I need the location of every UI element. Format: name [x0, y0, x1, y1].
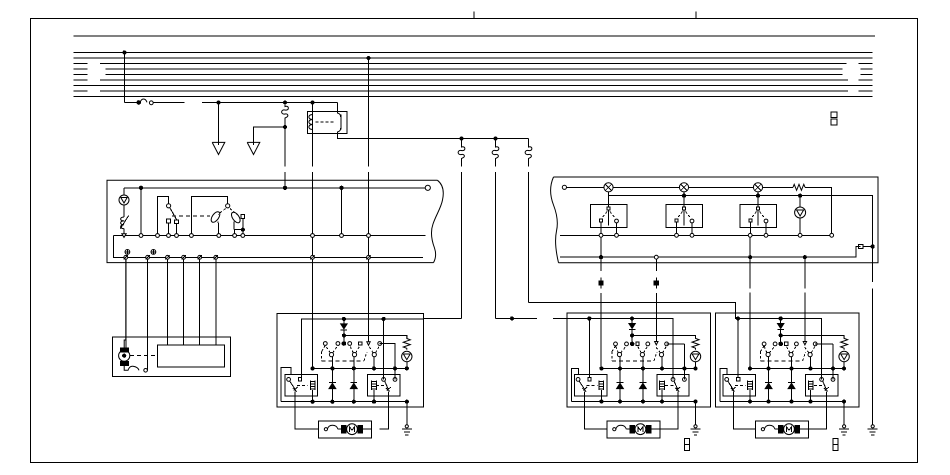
rear window cluster bottom bus junction x620	[767, 400, 770, 403]
left box inner line end circle	[425, 185, 430, 190]
bulb 3	[753, 183, 762, 192]
master switch pivot drops	[332, 357, 374, 369]
wire bus line 3 (broken)	[74, 63, 873, 65]
sub-box master left relay dashed link	[297, 384, 308, 386]
connector squares top right	[831, 112, 837, 125]
master wire coil left bottom	[312, 390, 314, 402]
master motor wire left	[295, 392, 318, 430]
node junction x141 on inner line	[139, 186, 142, 189]
wire oval1 to bus	[217, 222, 220, 236]
terminal circle x176.5 on left box bus	[175, 234, 179, 238]
wire x341 inner drop	[341, 188, 343, 234]
rear window cluster wire terminal link	[815, 343, 833, 345]
node junction x872	[871, 245, 874, 248]
symbol circled cross 1	[125, 250, 130, 255]
front window cluster ground	[691, 425, 701, 435]
wire left box to small box x215.8	[215, 259, 217, 345]
door switch 3	[740, 196, 776, 234]
rear window cluster mid bus junction x684.4	[831, 367, 834, 370]
master switch dashed enclosure	[322, 345, 367, 361]
master mid bus junction x406.8	[405, 367, 408, 370]
node junction on wire x285	[283, 125, 286, 128]
master bottom bus junction x406.8	[405, 400, 408, 403]
wire switch1 terminal b	[168, 223, 170, 236]
sub-box front window cluster left relay terminal square	[588, 378, 591, 381]
switch pivot drops	[620, 357, 662, 369]
terminal circle x191.4 on left box bus	[190, 234, 194, 238]
wire lamp stub	[123, 188, 125, 195]
front window cluster mid bus junction x601.4	[600, 367, 603, 370]
relay coil front window cluster left	[599, 381, 604, 391]
connector terminal x199.7 lower wire	[198, 255, 202, 259]
wire bus line 6 (broken)	[74, 79, 873, 81]
small box inner rect	[158, 345, 225, 367]
front window cluster box outline	[567, 313, 711, 407]
sub-box master right relay dashed link	[376, 384, 385, 386]
ground far right	[868, 425, 878, 435]
left box switch 2 frame	[191, 196, 227, 235]
diode rear window cluster D2	[788, 369, 795, 402]
rear window cluster ground	[839, 425, 849, 435]
front window cluster bottom bus junction x601.4	[600, 400, 603, 403]
rear window cluster mid bus junction x620	[767, 367, 770, 370]
wire bus line 9	[74, 96, 873, 98]
rear window cluster wire to sub-box right	[832, 344, 834, 380]
wire left box to master coil	[312, 259, 314, 368]
circuit breaker rear window cluster	[761, 425, 781, 431]
sub-box rear window cluster left relay terminal square	[736, 378, 739, 381]
right box line1 b	[613, 186, 680, 188]
connector terminal x368.5 lower wire	[366, 255, 370, 259]
front window cluster bottom bus junction x642.9	[641, 400, 644, 403]
sub-box front window cluster left relay terminal circle	[576, 378, 580, 382]
wire relay switch feed	[337, 103, 339, 112]
node lamp drop junction	[799, 194, 802, 197]
wire left box to small box x167.5	[167, 259, 169, 345]
terminal circle x800.1 right box bus	[798, 233, 802, 237]
diode master D2	[350, 369, 357, 402]
sub-box rear window cluster left relay	[723, 375, 755, 397]
master box outline	[277, 313, 424, 406]
interior lamp right box	[795, 196, 806, 234]
wire left box to small box x125.8	[125, 259, 127, 348]
motor M master	[342, 424, 372, 435]
wire horizontal feed	[125, 102, 138, 104]
node junction at x461	[460, 137, 463, 140]
terminal circle x676.5 right box bus	[675, 233, 679, 237]
connector mark x601	[599, 277, 603, 288]
node junction x750 lower	[749, 256, 752, 259]
sub-box rear window cluster right relay terminal circle b	[831, 378, 835, 382]
master wire to ground	[406, 402, 408, 425]
switch pivot drops	[769, 357, 811, 369]
left box switch 2 dashed levers	[218, 209, 237, 215]
front window cluster mid bus junction x620	[618, 367, 621, 370]
node bulb3 stub	[756, 192, 759, 197]
wire left box to small box x199.7	[199, 259, 201, 345]
sub-box rear window cluster right relay lever	[823, 381, 829, 392]
terminal circle x242.8 on left box bus	[241, 234, 245, 238]
terminal circle x656 lower	[654, 255, 658, 259]
sub-box front window cluster right relay terminal circle b	[683, 378, 687, 382]
sub-box master left relay	[285, 375, 317, 397]
illumination lamp	[839, 351, 849, 368]
circuit breaker front window cluster	[613, 425, 633, 431]
sub-box front window cluster left relay lever	[579, 381, 587, 392]
sub-box rear window cluster left relay dashed link	[735, 384, 746, 386]
node junction on bus line 2	[367, 56, 370, 59]
front window cluster mid bus junction x695.5	[694, 367, 697, 370]
rear window cluster bottom bus junction x695.5	[843, 400, 846, 403]
wire x804 to rear cluster	[804, 259, 806, 341]
wire resistor to bus	[123, 229, 125, 236]
node junction at x495	[494, 137, 497, 140]
front window cluster mid bus	[601, 368, 695, 370]
front window cluster sub-box outer outline	[572, 369, 579, 402]
master mid bus junction x332.4	[331, 367, 334, 370]
relay R1 coil	[309, 115, 313, 130]
frame tick mark 1	[473, 12, 475, 19]
wire oval2 junction link	[235, 229, 243, 231]
switch row terminals	[762, 342, 817, 346]
wire top line	[74, 35, 876, 37]
wire lamp to resistor	[123, 205, 125, 217]
illumination lamp	[690, 351, 700, 368]
bulb 1	[604, 183, 613, 192]
relay R1 box	[308, 112, 348, 134]
wire left box to small box x183.6	[183, 259, 185, 345]
front window cluster diode junction	[631, 334, 634, 337]
master bottom bus	[281, 401, 407, 403]
left box dashed link	[172, 215, 210, 217]
wire x656 to front cluster	[655, 259, 657, 341]
switch dashed enclosure	[612, 346, 657, 361]
rear window cluster sub-box outer outline	[720, 369, 727, 402]
rear window cluster bottom bus junction x662	[809, 400, 812, 403]
wire to master switch	[424, 317, 462, 319]
fusible link FL1	[137, 99, 153, 105]
master mid bus junction x374	[372, 367, 375, 370]
node junction x242	[241, 228, 244, 231]
front window cluster wire to sub-box right	[683, 344, 685, 380]
indicator oval 1	[209, 210, 221, 224]
front window cluster motor wire left	[585, 392, 607, 430]
left box bus line	[114, 235, 426, 237]
small box breaker	[124, 365, 139, 370]
rear window cluster bottom bus junction x642.9	[790, 400, 793, 403]
right box lower wire	[560, 247, 861, 258]
master feed junction diode	[342, 317, 345, 320]
terminal circle x141 on left box bus	[139, 234, 143, 238]
left box torn right edge	[432, 180, 444, 262]
rear window cluster mid bus	[750, 368, 844, 370]
right box torn left edge	[551, 177, 559, 263]
master feed wire	[302, 319, 424, 380]
wire vertical feed drop	[124, 52, 126, 102]
master wire terminal link	[380, 344, 395, 380]
master bottom bus junction x332.4	[331, 400, 334, 403]
wire relay output	[338, 134, 529, 139]
node bulb2 stub	[682, 192, 685, 197]
rear window cluster mid bus junction x662	[809, 367, 812, 370]
motor M front window cluster	[630, 424, 660, 435]
wire bus line 1	[74, 51, 873, 53]
small box outline	[112, 337, 230, 376]
front window cluster lamp feed wire	[632, 335, 695, 338]
wire bus line 8 (broken)	[74, 90, 873, 92]
right box line1 a	[567, 186, 604, 188]
front window cluster wire feed to sub-box	[588, 319, 590, 380]
connector terminal x147.6 lower wire	[145, 255, 149, 259]
master illumination lamp	[402, 351, 412, 368]
rear window cluster wire feed to sub-box	[737, 319, 739, 380]
master switch dashed levers	[325, 345, 379, 353]
wire left box to small box x147.6	[147, 259, 149, 370]
resistor	[692, 335, 699, 349]
motor box rear window cluster	[755, 421, 808, 438]
sub-box master left relay terminal circle	[287, 378, 291, 382]
wire x872 to ground	[872, 248, 874, 424]
diode master D1	[329, 369, 336, 402]
wire x312 lower	[312, 172, 314, 319]
left box switch 1 frame	[158, 197, 169, 236]
sub-box front window cluster left relay	[574, 375, 606, 397]
switch pivots	[617, 352, 663, 356]
right box line1 d	[763, 186, 794, 188]
rear window cluster connector squares	[833, 439, 838, 451]
right box terminal circle	[562, 185, 566, 189]
door switch 1	[591, 196, 627, 234]
node junction at x218	[217, 101, 220, 104]
fusible link on wire x528	[525, 139, 532, 167]
wire relay coil to left box	[312, 130, 314, 167]
switch pivots	[766, 352, 812, 356]
resistor right box	[793, 184, 805, 190]
node junction on bus line 1	[123, 51, 126, 54]
switch dashed levers	[764, 346, 815, 353]
rear window cluster wire coil right bottom	[810, 390, 812, 402]
master sub-box outer outline	[281, 367, 291, 401]
terminal circle x766 right box bus	[764, 233, 768, 237]
master wire coil right bottom	[373, 390, 375, 402]
connector terminal x183.6 lower wire	[181, 255, 185, 259]
rear window cluster mid bus junction x695.5	[843, 367, 846, 370]
sub-box front window cluster right relay dashed link	[665, 384, 674, 386]
switch dashed levers	[616, 346, 667, 353]
master diode top	[341, 319, 347, 344]
motor box front window cluster	[607, 421, 660, 438]
front window cluster bottom bus junction x662	[660, 400, 663, 403]
right box line1 e	[805, 187, 832, 233]
ground arrow 2	[247, 142, 260, 154]
switch dashed enclosure	[761, 346, 806, 361]
motor box master	[318, 421, 371, 438]
sub-box rear window cluster right relay terminal circle a	[820, 378, 824, 382]
master switch row terminals	[323, 342, 381, 346]
master mid bus	[313, 367, 407, 369]
right box line2	[609, 192, 873, 245]
front window cluster mid bus junction x684.4	[683, 367, 686, 370]
node junction x601 lower	[599, 256, 602, 259]
node junction x341 on inner line	[340, 186, 343, 189]
sub-box front window cluster right relay lever	[674, 381, 680, 392]
rear window cluster wire to ground	[843, 402, 845, 425]
ground arrow 1	[212, 142, 225, 154]
right box bus line	[560, 234, 832, 236]
sub-box rear window cluster right relay	[805, 375, 837, 397]
master switch pivots	[329, 353, 376, 357]
sub-box front window cluster left relay dashed link	[586, 384, 597, 386]
right box line1 c	[689, 186, 754, 188]
diode front window cluster D1	[617, 369, 624, 402]
wire x461 down	[461, 172, 463, 318]
connector mark x656	[654, 277, 658, 288]
relay coil front window cluster right	[660, 381, 665, 391]
rear window cluster diode top	[778, 319, 784, 344]
relay coil master right	[372, 381, 377, 391]
front window cluster wire terminal link	[667, 343, 685, 345]
left box terminal square x242	[241, 215, 245, 219]
front window cluster feed junction b	[631, 317, 634, 320]
master feed junction b	[382, 317, 385, 320]
terminal circle x157.5 on left box bus	[156, 234, 160, 238]
terminal circle x616.5 right box bus	[615, 233, 619, 237]
front window cluster mid bus junction x662	[660, 367, 663, 370]
small box motor feed bend	[124, 259, 126, 348]
wire feed to relay	[153, 102, 337, 104]
rear window cluster motor wire right	[809, 392, 827, 430]
wire L to ground arrow 2	[254, 127, 286, 145]
fusible link on wire x461	[458, 139, 465, 167]
wire door switch1 to front cluster	[600, 237, 602, 368]
circuit breaker master	[324, 425, 344, 431]
wire oval2 to bus	[233, 222, 236, 236]
sub-box master right relay	[367, 375, 399, 397]
sub-box rear window cluster left relay terminal circle	[725, 378, 729, 382]
master bottom bus junction x374	[372, 400, 375, 403]
front window cluster feed wire	[567, 319, 673, 380]
right box connector square	[859, 244, 863, 248]
front window cluster connector squares	[685, 439, 690, 451]
terminal circle x692 right box bus	[690, 233, 694, 237]
relay R1 coil feed wire	[312, 103, 314, 115]
left box switch 1 lever	[170, 208, 177, 220]
connector terminal x312.5 lower wire	[310, 255, 314, 259]
wire x495 down	[495, 172, 497, 318]
node junction x285 on inner line	[283, 186, 286, 189]
rear window cluster wire coil left bottom	[749, 390, 751, 402]
wire bus line 2	[74, 57, 873, 59]
rear window cluster feed wire	[740, 319, 822, 380]
master lamp feed wire	[344, 336, 407, 339]
sub-box front window cluster right relay terminal circle a	[671, 378, 675, 382]
rear window cluster feed junction a	[736, 317, 739, 320]
front window cluster wire coil left bottom	[600, 390, 602, 402]
left box inner top line	[124, 187, 425, 189]
relay R1 contact hooks	[338, 112, 341, 134]
terminal circle x601 right box bus	[599, 233, 603, 237]
frame tick mark 2	[695, 12, 697, 19]
terminal circle x234.6 on left box bus	[233, 234, 237, 238]
small box motor	[119, 348, 130, 365]
master diode junction	[342, 334, 345, 337]
left box switch 1 contact circle	[167, 204, 171, 208]
front window cluster diode top	[629, 319, 635, 344]
sub-box rear window cluster right relay dashed link	[814, 384, 823, 386]
front window cluster feed junction a	[588, 317, 591, 320]
symbol circled cross 2	[151, 250, 156, 255]
wire door switch3 to rear cluster	[749, 237, 751, 368]
relay coil rear window cluster left	[748, 381, 753, 391]
front window cluster mid bus junction x642.9	[641, 367, 644, 370]
small box dashed link	[130, 355, 158, 357]
terminal circle x368.5 on left box bus	[367, 234, 371, 238]
fusible link on wire x495	[492, 139, 499, 167]
wire switch1 terminal a	[176, 224, 178, 236]
sub-box master right relay terminal circle a	[382, 378, 386, 382]
wire bus line 4 (broken)	[74, 68, 873, 70]
diode front window cluster D2	[640, 369, 647, 402]
right box outline	[554, 177, 879, 263]
node junction at x285	[283, 101, 286, 104]
front window cluster bottom bus junction x620	[618, 400, 621, 403]
wire x528 down	[528, 172, 530, 302]
front window cluster motor wire right	[660, 392, 678, 430]
master motor wire right	[380, 392, 389, 430]
wire x285 with fusible link	[282, 105, 289, 188]
rear window cluster bottom bus	[720, 401, 844, 403]
sub-box master left relay terminal square	[298, 378, 301, 381]
switch row terminals	[614, 342, 669, 346]
rear window cluster lamp feed wire	[781, 335, 844, 338]
sub-box rear window cluster left relay lever	[728, 381, 736, 392]
left box switch 2 contact circle	[226, 204, 230, 208]
resistor	[841, 335, 848, 349]
motor M rear window cluster	[779, 424, 809, 435]
connector terminal x215.8 lower wire	[214, 255, 218, 259]
master resistor	[403, 336, 410, 350]
rear window cluster feed junction b	[779, 317, 782, 320]
indicator oval 2	[230, 211, 242, 225]
terminal circle x750.2 right box bus	[748, 233, 752, 237]
diode rear window cluster D1	[765, 369, 772, 402]
small box breaker end circle	[144, 369, 148, 373]
master ground	[402, 425, 412, 435]
terminal circle x312.5 on left box bus	[311, 234, 315, 238]
illumination lamp left box	[119, 195, 129, 205]
wire x242 to junction	[242, 219, 244, 236]
node junction at x312	[311, 101, 314, 104]
rear window cluster mid bus junction x642.9	[790, 367, 793, 370]
master mid bus junction x312.6	[311, 367, 314, 370]
sub-box master right relay terminal circle b	[393, 378, 397, 382]
terminal circle x341.5 on left box bus	[340, 234, 344, 238]
wire to rear cluster	[529, 302, 740, 318]
master mid bus junction x395	[393, 367, 396, 370]
wire to front cluster	[496, 317, 567, 319]
wire drop to ground arrow 1	[218, 103, 220, 146]
terminal circle x218.8 on left box bus	[217, 234, 221, 238]
rear window cluster motor wire left	[733, 392, 755, 430]
terminal circle x168.5 on left box bus	[167, 234, 171, 238]
rheostat left box	[120, 216, 128, 229]
rear window cluster box outline	[715, 313, 859, 407]
front window cluster bottom bus	[572, 401, 696, 403]
relay R1 contact bar	[340, 114, 342, 129]
node junction x804 lower	[803, 256, 806, 259]
sub-box front window cluster right relay	[657, 375, 689, 397]
left box outline	[107, 180, 438, 262]
